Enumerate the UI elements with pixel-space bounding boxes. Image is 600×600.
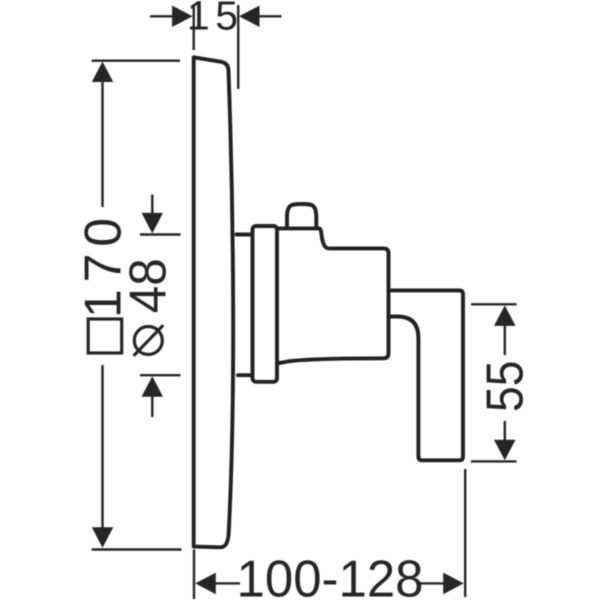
dim 100-128 left line: [215, 582, 241, 584]
diameter symbol of dim 48 (circle): [134, 327, 162, 355]
wall extension line bottom: [193, 550, 195, 600]
svg-text:15: 15: [187, 0, 244, 38]
main drawing outlines: [194, 57, 463, 547]
dim 55 line lower: [504, 421, 506, 443]
wall plate (escutcheon) outline: [194, 57, 233, 547]
collar step line bottom: [238, 373, 252, 377]
ext line 170 top: [92, 60, 180, 62]
dimension texts: [75, 0, 535, 600]
arrow 55 down: [494, 440, 516, 461]
arrowheads: [92, 6, 516, 595]
sleeve (escutcheon sleeve): [253, 226, 278, 382]
arrow 15 left (points right): [172, 6, 193, 27]
ext line right of 100-128: [464, 469, 466, 597]
arrow d48 up: [142, 376, 164, 397]
ext line 55 bottom: [471, 460, 517, 462]
collar step line top: [237, 233, 253, 237]
svg-text:55: 55: [476, 360, 534, 411]
square symbol of dim 170: [88, 319, 122, 353]
arrow 170 up: [92, 62, 114, 83]
dim 170 line lower: [101, 365, 103, 529]
ext line 55 top: [471, 303, 517, 305]
dim d48 upper arrow stem: [151, 195, 153, 215]
handle (lever) outline: [388, 290, 463, 460]
svg-text:100-128: 100-128: [237, 549, 424, 600]
dim 55 line upper: [504, 325, 506, 356]
dim 170 line upper: [101, 81, 103, 207]
tick line d48 top: [140, 233, 181, 235]
arrow 100-128 left (points left): [195, 573, 216, 595]
arrow 100-128 right (points right): [443, 573, 464, 595]
svg-text:170: 170: [75, 211, 133, 318]
dim 15 left line: [150, 15, 174, 17]
tick line d48 bottom: [140, 374, 181, 376]
dim 15 right line: [259, 15, 282, 17]
ext line 170 bottom: [92, 548, 182, 550]
cartridge body outline: [277, 228, 389, 363]
thin line group: extension + dimension lines: [92, 5, 517, 599]
arrow 170 down: [92, 527, 114, 548]
arrow d48 down: [142, 213, 164, 234]
dim 100-128 right line: [420, 582, 445, 584]
wall extension line top: [192, 6, 194, 50]
diameter symbol slash: [134, 325, 164, 356]
safety stop button dome: [287, 204, 316, 228]
dim d48 lower arrow stem: [151, 396, 153, 418]
arrow 15 right (points left): [239, 6, 260, 27]
extension line right of 15 dim: [237, 5, 239, 89]
arrow 55 up: [494, 305, 516, 326]
